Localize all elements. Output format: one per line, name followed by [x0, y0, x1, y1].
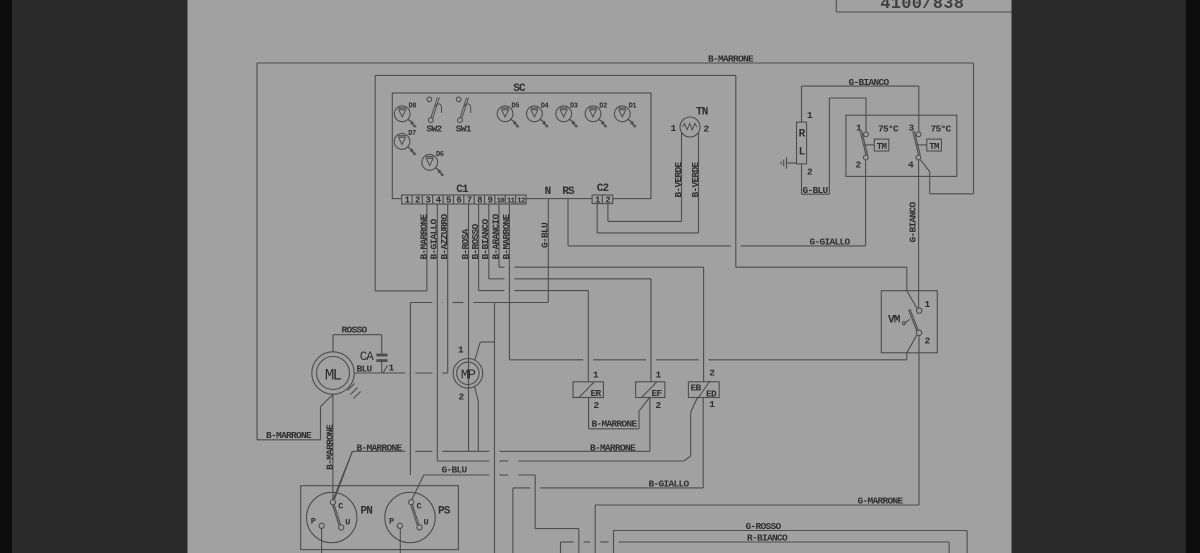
svg-text:P: P	[311, 517, 316, 527]
svg-text:C1: C1	[456, 184, 469, 196]
wire B-MARRONE outer loop top	[257, 62, 974, 64]
wire G-BIANCO vertical	[918, 160, 920, 308]
wire C1-8 to relay ER	[479, 204, 589, 382]
svg-text:B-MARRONE: B-MARRONE	[418, 213, 429, 259]
svg-text:B-MARRONE: B-MARRONE	[708, 54, 754, 65]
label VM	[888, 315, 901, 327]
svg-text:EB: EB	[691, 383, 702, 394]
label ML	[325, 367, 342, 385]
svg-text:U: U	[345, 518, 350, 528]
label ER pin 2	[594, 400, 600, 411]
wire G-BLU branch vertical	[494, 303, 496, 553]
label RS	[562, 186, 575, 198]
svg-text:B-VERDE: B-VERDE	[673, 161, 684, 197]
thermostat TM1 lever	[860, 131, 867, 155]
right black strip	[1186, 0, 1200, 553]
switch VM lever	[908, 309, 918, 331]
wire MP pin1	[475, 342, 495, 360]
svg-text:G-MARRONE: G-MARRONE	[858, 496, 904, 507]
label B-MARRONE C1-11	[501, 213, 512, 259]
label R	[799, 129, 806, 141]
switch VM lever pivot	[902, 322, 905, 325]
label B-MARRONE left	[266, 430, 312, 441]
wire RL pin2 G-BLU	[802, 98, 867, 194]
wire EF pin2 B-MARRONE	[333, 398, 650, 501]
relay EF box	[636, 382, 665, 398]
label G-ROSSO	[746, 521, 782, 532]
svg-text:VM: VM	[888, 315, 901, 327]
svg-text:RS: RS	[562, 186, 575, 198]
wire C1-3 inner loop left side	[375, 75, 427, 291]
thermostat TM1 box	[874, 139, 889, 151]
left dark band	[12, 0, 188, 553]
wire C1-3 inner loop right side	[735, 75, 737, 267]
svg-text:B-MARRONE: B-MARRONE	[357, 442, 403, 453]
label B-GIALLO bottom	[649, 478, 690, 489]
label TN pin 1	[670, 123, 676, 134]
wire G-BLU bottom	[424, 475, 579, 553]
svg-text:D8: D8	[409, 103, 417, 111]
svg-text:B-VERDE: B-VERDE	[690, 161, 701, 197]
motor MP	[453, 359, 483, 389]
thermostat TM2 pin3 contact	[916, 132, 921, 137]
label G-MARRONE	[858, 496, 904, 507]
svg-text:D2: D2	[599, 103, 607, 111]
label B-MARRONE top	[708, 54, 754, 65]
wire EB-ED pin1 down	[513, 398, 703, 553]
thermal sensor TN	[680, 117, 700, 137]
connector C2 cells 1-2	[592, 195, 613, 205]
thermostat TM2 lever	[913, 131, 920, 155]
svg-text:SW1: SW1	[456, 124, 472, 135]
connector C1 cells 1-12	[402, 195, 526, 205]
label TM1	[877, 142, 887, 152]
wire B-MARRONE outer loop left side	[256, 63, 258, 440]
label R-BIANCO	[747, 533, 788, 544]
svg-text:CA: CA	[360, 350, 374, 364]
wire C1-10 to relay EB-ED	[499, 204, 704, 382]
left black strip	[0, 0, 12, 553]
label TM1 pin 2	[855, 160, 861, 171]
svg-text:B-MARRONE: B-MARRONE	[592, 418, 638, 429]
wire B-MARRONE to thermostat TM2	[920, 160, 973, 194]
wire PS P down	[399, 528, 401, 553]
label B-ARANCIO C1-10	[490, 213, 501, 259]
svg-text:75°C: 75°C	[878, 124, 899, 135]
label CA	[360, 350, 374, 364]
wire B-GIALLO bus	[437, 460, 684, 462]
LED D7	[394, 130, 416, 155]
label ROSSO	[342, 324, 368, 335]
svg-text:C2: C2	[597, 183, 609, 195]
svg-text:SC: SC	[513, 83, 526, 95]
label BLU	[357, 363, 373, 374]
relay ER box	[573, 382, 603, 398]
svg-text:MP: MP	[461, 367, 476, 383]
svg-text:TM: TM	[877, 142, 887, 152]
switch SW1	[456, 97, 472, 134]
svg-text:R-BIANCO: R-BIANCO	[747, 533, 788, 544]
wire PN C diagonal	[334, 451, 352, 500]
pressure switch PS	[385, 492, 435, 542]
label TN	[696, 107, 708, 119]
wire ML to PN C B-MARRONE	[332, 394, 334, 499]
label B-VERDE right	[690, 161, 701, 197]
svg-text:3: 3	[425, 195, 430, 205]
LED D3	[556, 103, 578, 128]
relay EB-ED box	[688, 381, 719, 399]
wire C1-9 to relay EF	[489, 204, 651, 382]
thermostat box	[846, 115, 957, 176]
svg-text:D5: D5	[511, 103, 519, 111]
label G-BIANCO vertical	[907, 201, 918, 242]
LED D2	[585, 103, 607, 128]
switch VM pin1 contact	[917, 308, 922, 313]
LED D4	[527, 103, 549, 128]
svg-text:EF: EF	[652, 388, 663, 399]
svg-text:BLU: BLU	[357, 363, 373, 374]
switch VM lever link	[905, 319, 910, 322]
svg-text:B-MARRONE: B-MARRONE	[590, 442, 636, 453]
svg-text:B-MARRONE: B-MARRONE	[324, 424, 335, 470]
wire G-BIANCO top	[802, 86, 919, 132]
label N	[545, 186, 551, 198]
label MP pin 2	[458, 392, 464, 403]
wire EB-ED diagonal to B-GIALLO bus	[684, 398, 698, 462]
svg-text:6: 6	[456, 195, 461, 205]
svg-text:5: 5	[446, 195, 451, 205]
pressure switch box	[301, 486, 459, 550]
label G-BLU vertical	[540, 222, 551, 248]
label B-AZZURRO C1-5	[439, 213, 450, 259]
label MP	[461, 367, 476, 383]
LED D1	[614, 103, 636, 128]
svg-text:C: C	[338, 502, 343, 512]
label EF	[652, 388, 663, 399]
wire VM pin2 exit	[907, 335, 917, 360]
svg-text:PN: PN	[361, 506, 373, 518]
svg-text:D6: D6	[436, 151, 444, 159]
label 75C left	[878, 124, 899, 135]
wire C1-4 B-GIALLO	[436, 204, 438, 461]
label G-GIALLO	[810, 236, 851, 247]
wire B-MARRONE to motor ML	[257, 394, 333, 439]
thermostat TM1 pin2 contact	[863, 155, 868, 160]
title block border	[836, 0, 1011, 12]
right dark band	[1012, 0, 1187, 553]
svg-text:G-GIALLO: G-GIALLO	[810, 236, 851, 247]
svg-text:C: C	[417, 502, 422, 512]
svg-text:B-AZZURRO: B-AZZURRO	[439, 213, 450, 259]
label B-VERDE left	[673, 161, 684, 197]
svg-text:B-MARRONE: B-MARRONE	[501, 213, 512, 259]
svg-text:ED: ED	[706, 389, 717, 400]
label EB-ED pin 2	[709, 368, 715, 379]
thermostat TM2 pin4 contact	[916, 155, 921, 160]
svg-text:ER: ER	[591, 388, 602, 399]
svg-text:U: U	[424, 518, 429, 528]
svg-text:TN: TN	[696, 107, 708, 119]
label 75C right	[931, 124, 952, 135]
label ER pin 1	[593, 370, 599, 381]
svg-text:G-ROSSO: G-ROSSO	[746, 521, 782, 532]
label EB-ED pin 1	[709, 399, 715, 410]
label B-MARRONE vertical at ML	[324, 424, 335, 470]
svg-text:N: N	[545, 186, 551, 198]
wire BLU	[354, 372, 448, 374]
svg-text:B-MARRONE: B-MARRONE	[266, 430, 312, 441]
svg-text:TM: TM	[929, 142, 939, 152]
motor ML	[312, 352, 354, 394]
thermostat TM2 link	[916, 144, 927, 146]
svg-text:PS: PS	[438, 506, 451, 518]
thermostat TM1 link	[864, 144, 875, 146]
pin tick 1 at CA	[383, 363, 394, 374]
label B-BIANCO C1-9	[480, 218, 491, 259]
wire C1-7 B-ROSA	[468, 204, 470, 451]
svg-text:D3: D3	[570, 103, 578, 111]
label G-BLU bottom	[442, 464, 468, 475]
svg-text:D4: D4	[541, 103, 549, 111]
svg-text:G-BIANCO: G-BIANCO	[907, 201, 918, 242]
label TM2	[929, 142, 939, 152]
svg-text:75°C: 75°C	[931, 124, 952, 135]
control unit SC box	[392, 93, 651, 199]
thermostat TM2 box	[927, 139, 942, 151]
wire VM pin2 down G-BIANCO	[918, 336, 920, 506]
label RL pin 2	[807, 167, 813, 178]
wire G-ROSSO	[614, 531, 968, 553]
label C2	[597, 183, 609, 195]
label EF pin 2	[656, 400, 662, 411]
label EB	[691, 383, 702, 394]
label TM2 pin 4	[908, 160, 914, 171]
wire MP pin2	[475, 386, 479, 451]
label ED	[706, 389, 717, 400]
label MP pin 1	[458, 345, 464, 356]
svg-text:G-BIANCO: G-BIANCO	[849, 77, 890, 88]
ground at RL	[781, 157, 796, 168]
label VM pin 2	[925, 336, 931, 347]
wire B-MARRONE outer loop right side	[973, 63, 975, 194]
wire RS G-GIALLO	[568, 160, 866, 246]
pressure switch PN	[307, 492, 357, 542]
label G-BIANCO top	[849, 77, 890, 88]
svg-text:ML: ML	[325, 367, 342, 385]
label B-MARRONE C1-3	[418, 213, 429, 259]
label ER	[591, 388, 602, 399]
label PN	[361, 506, 373, 518]
label L	[799, 147, 806, 159]
label C1	[456, 184, 469, 196]
svg-text:4100/838: 4100/838	[880, 0, 964, 14]
switch SW2	[427, 97, 443, 134]
label B-MARRONE at PN	[357, 442, 403, 453]
svg-text:B-GIALLO: B-GIALLO	[649, 478, 690, 489]
label G-BLU at RL	[803, 185, 829, 196]
svg-text:D1: D1	[629, 103, 637, 111]
wire C2-1 to TN-2 B-VERDE	[597, 133, 698, 233]
wire ROSSO	[333, 335, 382, 354]
title text 4100/838	[880, 0, 964, 14]
capacitor CA	[376, 354, 387, 373]
wire N G-BLU	[410, 199, 548, 475]
svg-text:2: 2	[415, 195, 420, 205]
wire PS C diagonal	[412, 475, 424, 500]
LED D8	[394, 103, 416, 128]
switch VM pin2 contact	[916, 330, 921, 335]
label TN pin 2	[703, 124, 709, 135]
svg-text:B-ARANCIO: B-ARANCIO	[490, 213, 501, 259]
label EF pin 1	[656, 370, 662, 381]
label B-MARRONE at EF	[590, 442, 636, 453]
wire C1-3 inner loop top	[375, 74, 736, 76]
svg-text:D7: D7	[408, 130, 416, 138]
switch VM box	[881, 291, 937, 353]
label B-MARRONE at ER	[592, 418, 638, 429]
thermostat TM1 pin1 contact	[864, 132, 869, 137]
wire C2-2 to TN-1 B-VERDE	[608, 132, 682, 221]
LED D5	[497, 103, 519, 128]
label TM2 pin 3	[908, 123, 914, 134]
wire R-BIANCO	[561, 542, 950, 553]
svg-text:7: 7	[467, 195, 472, 205]
svg-text:ROSSO: ROSSO	[342, 324, 368, 335]
LED D6	[422, 151, 444, 176]
switch VM entry diagonal	[907, 291, 917, 309]
wire C1-11 B-MARRONE to VM	[508, 204, 510, 360]
label TM1 pin 1	[856, 123, 862, 134]
svg-text:P: P	[389, 517, 394, 527]
label RL pin 1	[807, 110, 813, 121]
motor ML hatch	[348, 384, 361, 399]
label B-ROSA C1-7	[460, 228, 471, 259]
svg-text:G-BLU: G-BLU	[803, 185, 829, 196]
svg-text:9: 9	[488, 195, 493, 205]
wire ER pin2 jog	[589, 398, 650, 429]
wire PN P down	[321, 528, 323, 553]
resistor RL	[797, 122, 807, 164]
svg-text:G-BLU: G-BLU	[442, 464, 468, 475]
label B-ROSSO C1-8	[470, 223, 481, 259]
svg-text:B-GIALLO: B-GIALLO	[429, 218, 440, 259]
label B-GIALLO C1-4	[429, 218, 440, 259]
svg-text:G-BLU: G-BLU	[540, 222, 551, 248]
label PS	[438, 506, 451, 518]
label VM pin 1	[925, 299, 931, 310]
wire C1-5 B-AZZURRO	[447, 204, 449, 373]
label SC	[513, 83, 526, 95]
wire inner loop to switch VM	[736, 267, 907, 291]
svg-text:8: 8	[477, 195, 482, 205]
wire VM return to C1-11	[509, 359, 906, 361]
svg-text:SW2: SW2	[427, 124, 443, 135]
wire G-MARRONE	[595, 505, 919, 553]
